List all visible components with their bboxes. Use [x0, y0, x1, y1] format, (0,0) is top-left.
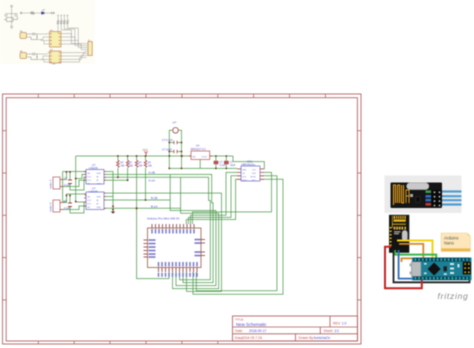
- svg-text:NRF24L01+: NRF24L01+: [242, 163, 257, 167]
- pull-up resistor RP1: [57, 15, 59, 28]
- junction dots nets: [112, 176, 146, 210]
- wire net A-1A: [106, 177, 210, 279]
- tiny red labels (mini): [20, 30, 90, 53]
- title block outline: [233, 316, 358, 341]
- yellow wire: [397, 241, 433, 259]
- arduino left pins: [144, 239, 156, 257]
- motor M1 (mini): [20, 33, 29, 39]
- wire NRF SCK to arduino: [188, 176, 237, 224]
- green wire: [394, 250, 436, 259]
- capacitor C3 0.1uF (motor1): [64, 177, 72, 187]
- svg-text:VCC: VCC: [252, 170, 257, 172]
- svg-text:C? 10uF: C? 10uF: [162, 148, 172, 152]
- svg-text:M2: M2: [20, 51, 23, 53]
- battery B1: [169, 121, 181, 169]
- motor driver U2 L9110S: [84, 187, 106, 210]
- capacitor CL1: [5, 14, 7, 17]
- USB connector: [412, 262, 422, 277]
- ground below IC2 (mini): [52, 63, 55, 64]
- wire NRF MISO to arduino: [186, 179, 237, 224]
- svg-text:Sheet: 1/1: Sheet: 1/1: [324, 329, 340, 333]
- wire GND rail below regulator: [169, 160, 237, 169]
- svg-text:IRQ: IRQ: [252, 180, 256, 182]
- svg-text:Nano: Nano: [444, 241, 455, 246]
- wire IC2 pin1: [106, 193, 222, 291]
- sticky note Arduino Nano: [441, 233, 471, 252]
- arduino right pins: [195, 239, 206, 256]
- junction dots battery: [168, 142, 182, 170]
- blue pin wires (top module): [442, 192, 462, 205]
- motor M2 (mini): [20, 53, 29, 59]
- arduino top pins: [151, 224, 194, 234]
- white smd specks: [424, 263, 460, 275]
- svg-text:A-1B: A-1B: [149, 171, 155, 175]
- svg-text:VCC: VCC: [87, 204, 92, 206]
- resistor R2 10k: [126, 155, 133, 180]
- driver IC1 (mini): [48, 32, 64, 48]
- wire IC2 to header (mini): [63, 52, 87, 63]
- svg-text:VCC: VCC: [87, 177, 92, 179]
- capacitor C6 10uF (reg out): [224, 155, 236, 169]
- svg-text:GND: GND: [97, 184, 102, 186]
- pull-up resistor RP2: [60, 15, 62, 28]
- wire LED row: [22, 12, 55, 14]
- svg-text:EasyEDA V5.7.26: EasyEDA V5.7.26: [235, 336, 262, 340]
- motor 1 connector: [49, 177, 65, 189]
- svg-text:AMS1117-3.3: AMS1117-3.3: [191, 148, 207, 151]
- svg-text:C? 0.1uF: C? 0.1uF: [162, 138, 173, 142]
- NRF24L01 breadboard module: [389, 215, 409, 253]
- frame row ticks left/right: [3, 131, 362, 300]
- svg-text:L9110S: L9110S: [89, 190, 98, 194]
- wire motor2 to IC2 (mini): [37, 54, 48, 62]
- capacitor CL2: [15, 14, 17, 17]
- wire IC1 to header (mini): [63, 34, 87, 50]
- wire net B-1A: [106, 177, 219, 288]
- wire U1 GND drop: [106, 172, 113, 212]
- header connector (mini): [87, 42, 93, 56]
- colored pad labels (top module): [426, 190, 432, 193]
- wire motor2 to U2: [63, 179, 86, 214]
- ICSP header: [463, 262, 471, 275]
- LED D1: [42, 9, 45, 14]
- svg-text:GND: GND: [97, 197, 102, 199]
- wire net B-1B: [106, 174, 216, 285]
- pull-up resistor RP3: [63, 15, 65, 28]
- svg-text:VIN: VIN: [192, 156, 196, 158]
- svg-text:0.1uF: 0.1uF: [220, 164, 227, 167]
- pin right of LED row: [52, 12, 55, 14]
- svg-text:VOUT: VOUT: [202, 156, 208, 158]
- mini schematic background: [0, 0, 95, 64]
- frame column ticks top/bottom: [38, 94, 325, 344]
- wire NRF CSN loop to arduino: [193, 172, 272, 224]
- VCC symbol on rail: [143, 148, 149, 156]
- wire NRF MOSI loop to arduino bottom: [196, 176, 277, 291]
- top card background: [385, 176, 462, 214]
- wire NRF VCC up and over: [233, 156, 264, 169]
- capacitor C5 0.1uF (reg out): [214, 155, 226, 169]
- antenna trace (top module): [394, 185, 410, 205]
- cap cluster motor2 (mini): [29, 53, 37, 60]
- arduino bottom pins: [158, 262, 198, 277]
- sheet frame inner: [6, 98, 357, 341]
- svg-text:GND: GND: [97, 173, 102, 175]
- wire NRF IRQ loop to arduino bottom: [193, 179, 283, 294]
- svg-text:Date:: Date:: [235, 329, 243, 333]
- capacitor C2 10uF (battery): [162, 148, 182, 154]
- svg-text:10uF: 10uF: [230, 164, 236, 167]
- motor 2 connector: [49, 200, 65, 212]
- pin left of LED row: [19, 12, 22, 14]
- capacitor C1 0.1uF (battery): [162, 138, 182, 144]
- ground below crystal: [10, 27, 13, 29]
- resistor R1 10k: [117, 155, 126, 177]
- crystal (top module): [407, 183, 430, 190]
- svg-text:motor 1: motor 1: [49, 179, 53, 189]
- MCU chip diamond: [428, 262, 441, 275]
- svg-text:VCC: VCC: [87, 180, 92, 182]
- antenna gold block: [394, 216, 406, 222]
- crystal silver: [402, 230, 408, 240]
- wire NRF CE to arduino: [191, 172, 238, 224]
- wire IC1 pin4 stub: [106, 179, 128, 181]
- voltage regulator U4 AMS1117-3.3: [181, 145, 212, 160]
- pull-up resistor RP4: [67, 15, 69, 28]
- wire motor1 to IC1 (mini): [37, 34, 48, 44]
- svg-text:A-1A: A-1A: [149, 178, 155, 182]
- svg-text:fritzing: fritzing: [438, 291, 469, 301]
- svg-text:2018-09-17: 2018-09-17: [249, 329, 266, 333]
- svg-text:fumichaOv: fumichaOv: [314, 336, 331, 340]
- svg-text:GND: GND: [242, 170, 247, 172]
- svg-text:B-1A: B-1A: [151, 205, 157, 209]
- small component: [444, 266, 447, 271]
- wire crystal vertical: [6, 7, 18, 27]
- smd pad row: [394, 227, 406, 230]
- cap cluster motor1 (mini): [29, 33, 37, 40]
- svg-text:IC1: IC1: [50, 30, 53, 32]
- svg-text:M1: M1: [20, 31, 23, 33]
- MCU module Arduino Pro Mini: [147, 217, 201, 268]
- bottom pin header: [414, 276, 470, 280]
- svg-text:Drawn By:: Drawn By:: [299, 336, 315, 340]
- junction dots motor area: [66, 171, 87, 202]
- svg-text:MISO: MISO: [242, 180, 248, 182]
- svg-text:J1: J1: [88, 40, 90, 42]
- svg-text:IC2: IC2: [50, 49, 53, 51]
- Arduino Nano board: [410, 258, 472, 281]
- resistor R4 10k: [144, 155, 152, 200]
- svg-text:Arduino Pro Mini 168 3V: Arduino Pro Mini 168 3V: [147, 217, 180, 221]
- svg-text:U?: U?: [173, 121, 177, 125]
- svg-text:SCK: SCK: [242, 177, 247, 179]
- svg-text:B-1B: B-1B: [151, 196, 157, 200]
- capacitor C7 0.1uF (motor2): [64, 200, 72, 210]
- wire pullup columns (mini): [58, 28, 78, 45]
- RF module photo PCB (top): [391, 183, 443, 209]
- wire VCC power rail: [76, 156, 233, 179]
- left pads: [390, 227, 392, 246]
- supply pin top of crystal: [11, 5, 13, 7]
- svg-text:MOSI: MOSI: [251, 177, 257, 179]
- header block (top module): [432, 190, 443, 207]
- black wire: [394, 250, 470, 282]
- driver IC2 (mini): [48, 51, 64, 63]
- blue wire: [399, 250, 416, 279]
- sheet frame outer: [3, 94, 362, 344]
- resistor R3 10k: [135, 155, 143, 208]
- ground symbol below U1/U2: [111, 212, 115, 214]
- resistor R5 (LED): [31, 12, 34, 14]
- svg-text:CSN: CSN: [252, 173, 257, 175]
- RF module MS1 NRF24L01+: [237, 160, 264, 183]
- orange wire: [399, 244, 423, 262]
- svg-text:Arduino: Arduino: [444, 235, 459, 240]
- wire left big loop to bottom pin: [137, 208, 169, 278]
- wire net A-1B: [106, 171, 213, 283]
- svg-text:VCC: VCC: [143, 148, 149, 152]
- crystal Q1: [4, 17, 18, 22]
- wire motor1 to U1: [63, 172, 86, 202]
- svg-text:L9110S: L9110S: [89, 166, 98, 170]
- top pin header: [414, 258, 470, 262]
- white silk text specks: [394, 231, 401, 234]
- motor driver U1 L9110S: [84, 163, 106, 186]
- svg-text:GND: GND: [97, 207, 102, 209]
- svg-text:REV: 1.0: REV: 1.0: [333, 322, 347, 326]
- red wire: [385, 247, 422, 288]
- svg-text:VCC: VCC: [87, 200, 92, 202]
- svg-text:New Schematic: New Schematic: [236, 322, 267, 327]
- svg-text:motor 2: motor 2: [49, 202, 53, 212]
